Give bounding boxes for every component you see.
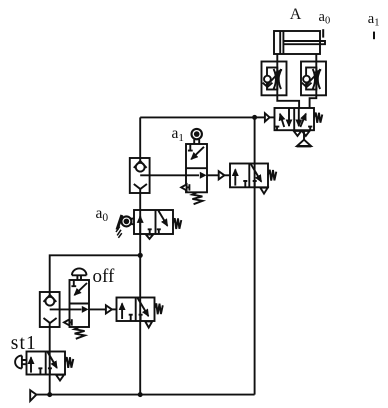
flow control valve left outer	[262, 62, 287, 96]
cylinder A rod	[283, 41, 325, 44]
valve a0 roller bracket	[117, 215, 122, 230]
flow control valve left inner	[267, 68, 277, 90]
flow control valve left check ball	[264, 76, 271, 83]
valve V5 body	[117, 298, 155, 322]
valve V1 right square diagonal arrow	[300, 114, 306, 127]
wire C2 to valve off	[50, 308, 82, 310]
V5 pilot triangle	[106, 305, 112, 313]
valve off spring	[74, 327, 84, 339]
flow control valve left check seat	[263, 83, 273, 87]
wire off to V5 pilot	[89, 308, 106, 310]
wire junction to check C2	[50, 255, 141, 295]
svg-text:a0: a0	[319, 9, 331, 27]
wire C1 to valve a1	[140, 174, 199, 176]
check valve C2 seat	[44, 295, 57, 302]
check valve C1 arrow	[134, 184, 147, 189]
valve V5 exhaust triangle	[145, 321, 152, 327]
valve off body	[70, 280, 90, 327]
check valve C1 seat	[134, 161, 147, 168]
sensor tick a1	[373, 32, 375, 40]
valve st1 push button	[15, 356, 22, 369]
valve V1 5/2 body	[275, 108, 315, 130]
supply source triangle	[30, 390, 36, 401]
wire C2 down through st1 to rail	[49, 323, 51, 395]
wire through a0 branch	[139, 189, 141, 395]
flow control valve right inner	[306, 68, 316, 90]
valve off top T stub	[71, 280, 76, 286]
valve V4 T stubs	[243, 181, 256, 187]
flow control valve right check seat	[302, 83, 312, 87]
valve V4 exhaust triangle	[260, 188, 267, 194]
valve a0 body	[134, 210, 173, 234]
valve st1 exhaust triangle	[56, 375, 64, 381]
valve V1 spring	[314, 113, 322, 123]
valve V5 diagonal arrow	[138, 298, 149, 316]
valve V5 T stubs	[129, 315, 143, 321]
valve V1 right square T stub	[308, 127, 312, 131]
cylinder A body	[274, 31, 320, 54]
check valve C1 ball	[136, 163, 145, 172]
valve V4 up arrow	[234, 169, 236, 185]
valve V1 left square diagonal arrow	[280, 114, 284, 127]
wire pilot junction to V1	[140, 116, 254, 118]
flow control valve right adjust arrow	[306, 70, 321, 86]
valve V4 body	[230, 164, 268, 188]
junction dot a0 branch	[138, 253, 143, 258]
valve V4 diagonal arrow	[251, 164, 262, 182]
check valve C2 ball	[46, 297, 55, 306]
valve a1 top diagonal arrow	[191, 147, 204, 159]
svg-text:A: A	[290, 6, 302, 23]
valve a1 top T stub	[188, 144, 193, 151]
valve st1 body	[27, 352, 66, 375]
flow control valve left adjust arrow	[267, 70, 282, 86]
svg-text:off: off	[93, 266, 115, 287]
sensor tick a0	[322, 29, 324, 37]
rail junction dot right	[138, 392, 143, 397]
valve st1 diagonal arrow	[48, 352, 57, 368]
valve st1 spring	[65, 357, 73, 368]
V4 pilot triangle	[219, 171, 225, 179]
valve off exhaust arrow	[64, 319, 69, 325]
valve V1 right square down arrow	[298, 108, 300, 126]
svg-text:a1: a1	[368, 11, 380, 29]
valve off mushroom button	[72, 268, 87, 275]
valve a0 diagonal arrow	[158, 211, 167, 226]
svg-text:a1: a1	[172, 125, 184, 144]
check valve C2 body	[40, 292, 60, 327]
check valve C1 body	[130, 158, 150, 193]
flow control valve right outer	[301, 62, 326, 96]
valve V1 supply stub	[303, 130, 305, 140]
valve V1 pilot triangle	[265, 113, 270, 121]
rail junction dot left	[47, 392, 52, 397]
valve a1 exhaust arrow	[181, 184, 186, 190]
valve a0 roller	[121, 216, 131, 226]
valve st1 up arrow	[30, 357, 32, 372]
valve a0 T stubs	[148, 229, 161, 234]
cylinder A piston	[279, 31, 281, 54]
junction dot	[252, 115, 257, 120]
supply rail	[36, 394, 254, 396]
wire right vertical to supply rail	[254, 117, 256, 394]
valve a0 exhaust triangle	[146, 235, 153, 239]
valve a0 up arrow	[139, 216, 141, 234]
flow control valve left throttle arcs	[274, 69, 281, 89]
valve a1 roller	[192, 129, 202, 139]
valve V1 left square down arrow	[288, 108, 290, 126]
wire a1 to V4 pilot	[207, 174, 219, 176]
check valve C2 arrow	[44, 318, 57, 323]
valve off flow arrow	[82, 306, 89, 313]
valve V1 supply triangle	[297, 140, 311, 146]
valve V4 spring	[268, 170, 276, 181]
valve a1 body	[186, 144, 207, 192]
valve a1 flow arrow	[200, 172, 207, 179]
valve off top diagonal arrow	[74, 283, 87, 295]
valve V1 exhaust triangle right	[302, 131, 310, 136]
svg-text:a0: a0	[96, 205, 109, 224]
valve V1 exhaust triangle left	[294, 131, 302, 136]
valve a1 spring	[192, 192, 202, 204]
wire cylinder right port to valve	[310, 54, 317, 108]
flow control valve right throttle arcs	[313, 69, 320, 89]
valve st1 T stubs	[38, 368, 52, 374]
valve V1 left square T stub	[275, 127, 279, 131]
wire left branch down to check C1	[139, 117, 141, 160]
valve V5 up arrow	[121, 303, 123, 319]
valve V5 spring	[155, 303, 163, 314]
wire cylinder left port to valve	[277, 54, 299, 108]
valve a0 spring	[173, 218, 181, 229]
flow control valve right check ball	[303, 76, 310, 83]
valve V1 pilot line	[255, 116, 265, 118]
